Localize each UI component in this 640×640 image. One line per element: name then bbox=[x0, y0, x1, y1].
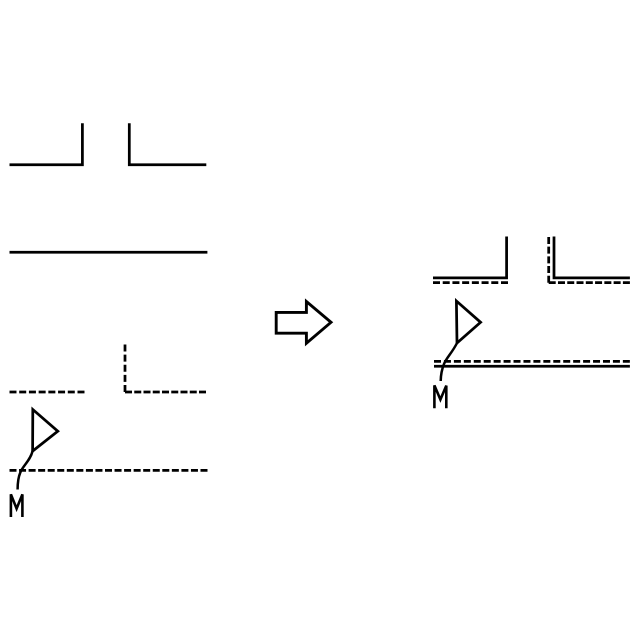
right drawing: long solid line bbox=[434, 365, 630, 368]
right drawing: dashed L vertical bbox=[547, 237, 550, 283]
right drawing: label M bbox=[434, 385, 446, 408]
left drawing: long dashed line bbox=[10, 469, 208, 472]
left drawing: solid L-wall left bbox=[10, 123, 83, 165]
block arrow bbox=[276, 302, 331, 344]
left drawing: triangle marker bbox=[33, 410, 58, 452]
left drawing: leader curve to M bbox=[18, 451, 33, 489]
left drawing: label M bbox=[11, 494, 23, 517]
right drawing: leader curve to M bbox=[441, 343, 457, 381]
left drawing: dashed L vertical bbox=[124, 345, 127, 393]
left drawing: solid middle wall line bbox=[10, 251, 208, 254]
right drawing: long dashed line bbox=[434, 360, 630, 363]
right drawing: dashed line under left L bbox=[433, 281, 508, 284]
right drawing: solid L-wall right bbox=[554, 237, 630, 278]
left drawing: solid L-wall right bbox=[129, 123, 206, 165]
right drawing: triangle marker bbox=[456, 301, 480, 343]
left drawing: short dashed line bbox=[10, 391, 85, 394]
right drawing: dashed L horizontal bbox=[549, 281, 630, 284]
left drawing: dashed L horizontal bbox=[125, 391, 206, 394]
right drawing: solid L-wall left bbox=[433, 237, 507, 278]
